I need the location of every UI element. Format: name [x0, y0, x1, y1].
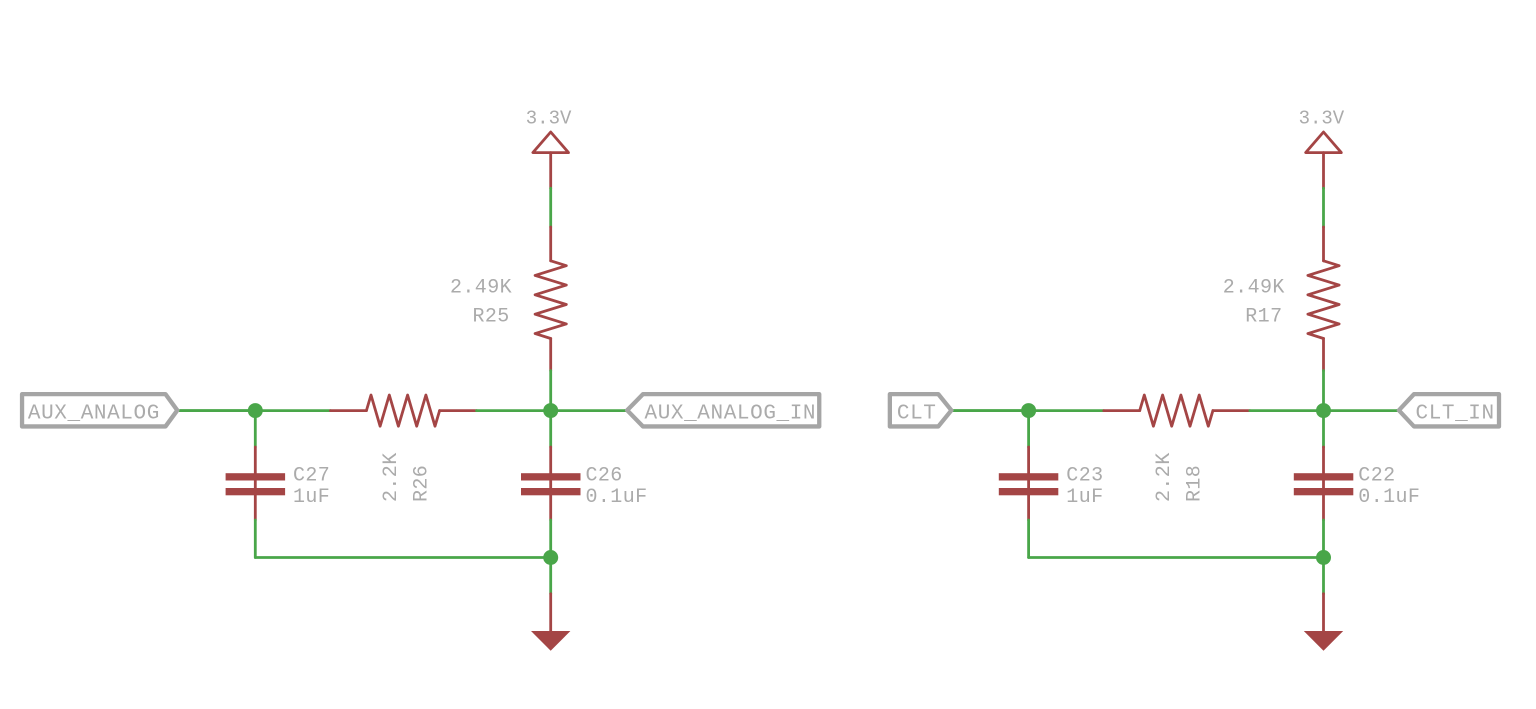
svg-text:2.2K: 2.2K [1153, 452, 1176, 502]
svg-text:3.3V: 3.3V [526, 108, 572, 130]
svg-text:C26: C26 [586, 464, 623, 487]
svg-text:R17: R17 [1245, 306, 1282, 329]
svg-text:3.3V: 3.3V [1299, 108, 1345, 130]
svg-text:1uF: 1uF [1066, 486, 1103, 509]
svg-text:R25: R25 [472, 306, 509, 329]
svg-text:R26: R26 [410, 465, 433, 502]
svg-text:C23: C23 [1066, 464, 1103, 487]
svg-text:CLT: CLT [897, 402, 937, 425]
svg-text:AUX_ANALOG: AUX_ANALOG [28, 402, 160, 425]
svg-text:1uF: 1uF [293, 486, 330, 509]
svg-text:2.49K: 2.49K [1223, 277, 1285, 300]
svg-text:C27: C27 [293, 464, 330, 487]
svg-text:0.1uF: 0.1uF [1358, 486, 1420, 509]
svg-text:AUX_ANALOG_IN: AUX_ANALOG_IN [645, 402, 817, 425]
svg-text:R18: R18 [1184, 465, 1207, 502]
svg-text:C22: C22 [1358, 464, 1395, 487]
svg-text:2.49K: 2.49K [450, 277, 512, 300]
svg-text:0.1uF: 0.1uF [586, 486, 648, 509]
svg-text:2.2K: 2.2K [380, 452, 403, 502]
svg-text:CLT_IN: CLT_IN [1416, 402, 1495, 425]
